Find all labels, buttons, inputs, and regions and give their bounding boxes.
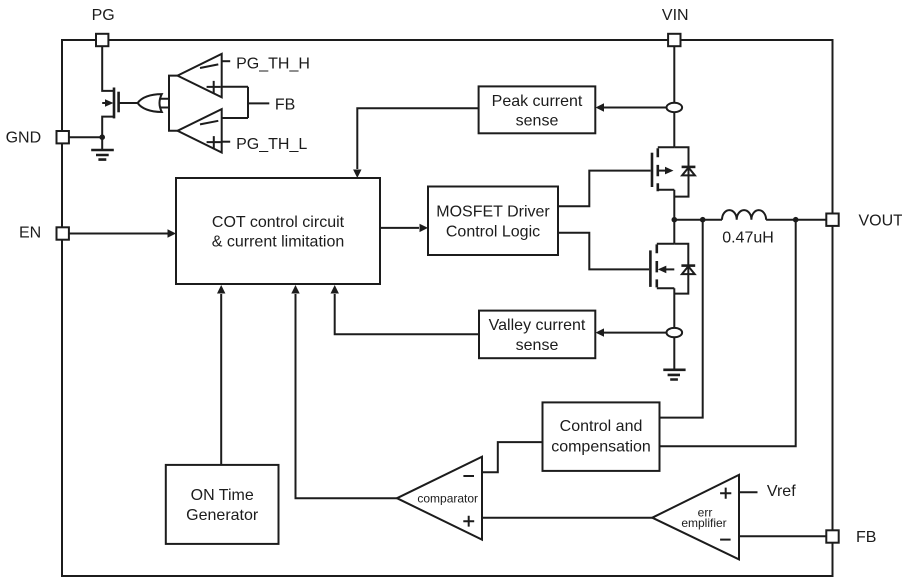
svg-text:FB: FB bbox=[856, 529, 876, 546]
wire PG_TH_H input stub bbox=[222, 60, 231, 62]
wire U3 plus input to FB bus bbox=[222, 86, 248, 88]
svg-text:PG_TH_L: PG_TH_L bbox=[236, 136, 307, 153]
wire pass FET source to GND node bbox=[102, 117, 114, 150]
node SW junction bbox=[672, 217, 678, 223]
comparator U5 bbox=[397, 457, 482, 540]
pin FB bbox=[826, 530, 838, 542]
node GND junction bbox=[99, 134, 105, 140]
current sense element valley bbox=[667, 328, 683, 337]
diode D1 high-side body diode bbox=[674, 147, 695, 196]
wire VIN pin down to high-side drain bbox=[673, 40, 675, 147]
transistor Q3 low-side MOSFET bbox=[650, 244, 674, 289]
wire valley sense to COT bottom bbox=[335, 294, 479, 334]
svg-text:Valley current: Valley current bbox=[489, 317, 586, 334]
op-amp U6 error amplifier bbox=[652, 475, 739, 560]
wire SW to inductor bbox=[674, 219, 722, 221]
wire PG_TH_L input stub bbox=[222, 141, 231, 143]
block Control and compensation bbox=[543, 402, 660, 471]
wire VOUT sense down to control block bbox=[660, 220, 796, 447]
inductor L1 bbox=[722, 210, 766, 220]
svg-text:0.47uH: 0.47uH bbox=[722, 230, 774, 247]
svg-text:PG_TH_H: PG_TH_H bbox=[236, 56, 310, 73]
svg-text:ON Time: ON Time bbox=[191, 487, 254, 504]
svg-text:PG: PG bbox=[92, 7, 115, 24]
svg-text:compensation: compensation bbox=[551, 439, 651, 456]
ground symbol (PG FET) bbox=[91, 150, 114, 160]
svg-text:& current limitation: & current limitation bbox=[212, 234, 345, 251]
block ON Time Generator bbox=[166, 465, 279, 544]
wire FB stub bbox=[248, 102, 269, 104]
wire VIN current sense arrow bbox=[604, 107, 666, 109]
svg-text:Peak current: Peak current bbox=[492, 93, 583, 110]
block MOSFET Driver Control Logic bbox=[428, 187, 558, 256]
wire control block to comparator minus bbox=[482, 442, 543, 472]
node VOUT sense tap bbox=[793, 217, 799, 223]
wire valley current sense arrow bbox=[604, 332, 666, 334]
wire high-side source to low-side drain bbox=[673, 190, 675, 244]
block Peak current sense bbox=[479, 86, 596, 133]
OR gate U2 bbox=[138, 94, 169, 112]
wire low-side source to power ground bbox=[673, 288, 675, 370]
diode D2 low-side body diode bbox=[674, 244, 695, 294]
wire FB bus bbox=[247, 87, 249, 118]
block COT control circuit bbox=[176, 178, 380, 284]
current sense element VIN bbox=[667, 103, 683, 112]
ground symbol (power) bbox=[663, 370, 685, 380]
svg-text:comparator: comparator bbox=[417, 491, 478, 505]
wire comparator outputs bus bbox=[169, 76, 178, 131]
wire COT to MOSFET driver bbox=[380, 227, 419, 229]
svg-text:GND: GND bbox=[6, 130, 42, 147]
transistor Q2 high-side MOSFET bbox=[652, 147, 674, 191]
wire GND pin to source node bbox=[63, 136, 102, 138]
wire SW sense down to control block bbox=[660, 220, 703, 418]
wire EN to COT block bbox=[63, 233, 168, 235]
pin GND bbox=[57, 131, 69, 143]
wire peak sense to COT top bbox=[357, 108, 478, 169]
svg-text:emplifier: emplifier bbox=[681, 516, 726, 530]
wire inductor to VOUT pin bbox=[766, 219, 826, 221]
comparator U4 PG_TH_L bbox=[178, 109, 222, 152]
svg-text:VOUT: VOUT bbox=[859, 212, 902, 229]
svg-text:VIN: VIN bbox=[662, 7, 689, 24]
pin PG bbox=[96, 34, 108, 46]
wire comparator output to COT bottom bbox=[296, 294, 398, 498]
block Valley current sense bbox=[479, 311, 595, 359]
node SW sense tap bbox=[700, 217, 706, 223]
pin VOUT bbox=[826, 214, 838, 226]
svg-text:Control Logic: Control Logic bbox=[446, 224, 540, 241]
wire err amp output to comparator plus bbox=[482, 517, 652, 519]
wire ON time generator to COT bottom bbox=[220, 294, 222, 465]
svg-text:FB: FB bbox=[275, 97, 295, 114]
wire U4 minus input to FB bus bbox=[222, 117, 248, 119]
svg-text:Control and: Control and bbox=[560, 418, 643, 435]
wire driver to low-side gate bbox=[558, 233, 649, 270]
svg-text:EN: EN bbox=[19, 224, 41, 241]
wire driver to high-side gate bbox=[558, 171, 651, 207]
svg-text:sense: sense bbox=[516, 337, 559, 354]
comparator U3 PG_TH_H bbox=[178, 54, 222, 97]
transistor Q1 PG open-drain FET bbox=[102, 88, 137, 119]
wire err amp minus to FB pin bbox=[739, 535, 826, 537]
svg-text:COT control circuit: COT control circuit bbox=[212, 214, 345, 231]
svg-text:Generator: Generator bbox=[186, 507, 259, 524]
chip boundary border bbox=[62, 40, 833, 576]
svg-text:MOSFET Driver: MOSFET Driver bbox=[436, 203, 550, 220]
wire PG pin to pass FET drain bbox=[102, 40, 114, 91]
wire Vref stub bbox=[739, 491, 758, 493]
svg-text:Vref: Vref bbox=[767, 483, 796, 500]
pin VIN bbox=[668, 34, 680, 46]
pin EN bbox=[57, 227, 69, 239]
svg-text:sense: sense bbox=[516, 113, 559, 130]
